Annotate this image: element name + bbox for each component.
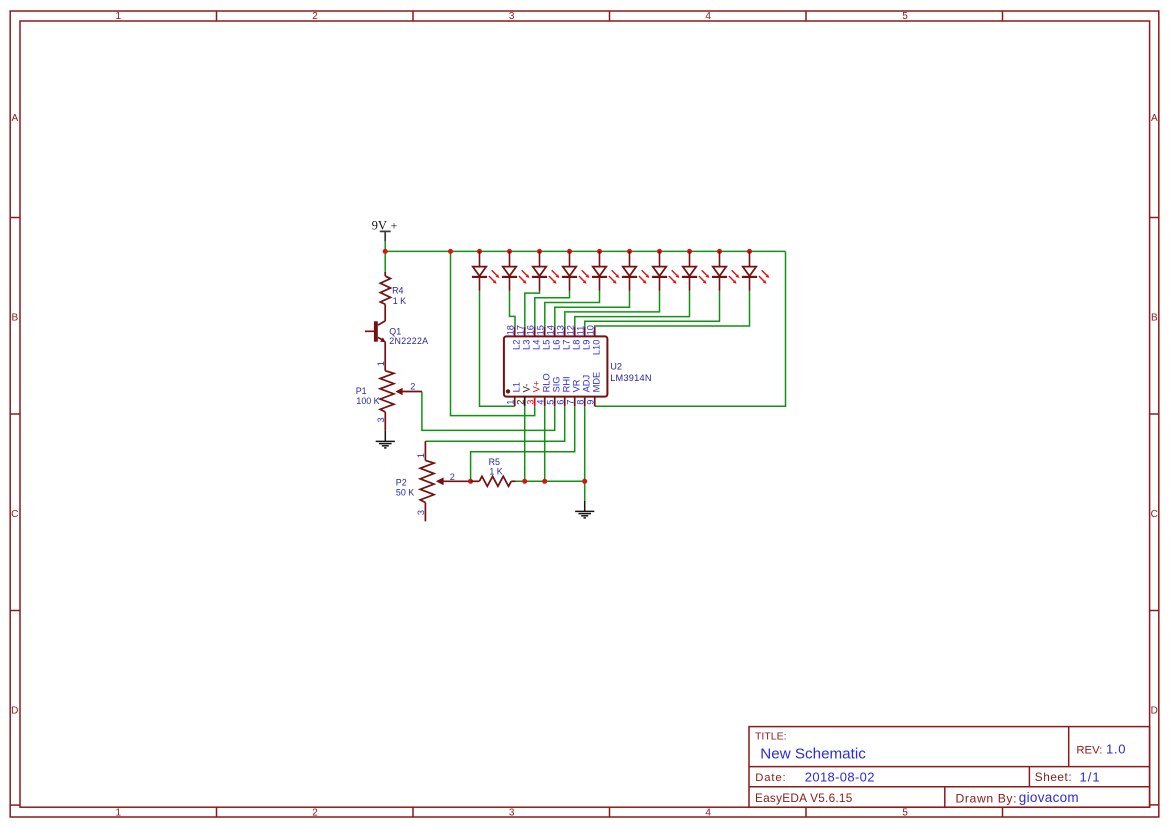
junction: 9V feed on 9V bus [383,249,388,254]
U2 pin 10 (L10) [585,325,601,355]
svg-text:A: A [1151,113,1158,124]
junction: LED8 anode on 9V bus [687,249,692,254]
U2 pin 13 (L7) [555,325,571,350]
svg-text:B: B [11,312,18,323]
wire: V+ rail drop to U2 pin 3 [451,251,535,415]
svg-text:L5: L5 [541,340,551,350]
svg-text:11: 11 [575,326,585,336]
svg-text:2018-08-02: 2018-08-02 [805,769,875,784]
svg-text:REV:: REV: [1076,744,1102,756]
svg-text:SIG: SIG [551,376,561,392]
wire: LED7 cathode to U2 pin 13 [565,291,660,328]
svg-text:MDE: MDE [591,372,601,393]
wire: LED1 cathode to U2 pin 1 [480,291,515,407]
svg-text:+: + [391,219,398,233]
svg-text:L8: L8 [571,340,581,350]
svg-text:4: 4 [705,11,711,22]
svg-text:V-: V- [521,384,531,393]
op-amp/IC U2 LM3914N body [504,336,652,396]
junction: LED7 anode on 9V bus [657,249,662,254]
svg-text:D: D [11,706,18,717]
svg-text:D: D [1151,706,1158,717]
svg-text:Q1: Q1 [389,326,401,336]
svg-text:3: 3 [525,400,535,405]
svg-text:6: 6 [555,400,565,405]
svg-text:4: 4 [535,400,545,405]
U2 pin 9 (MDE) [585,372,601,406]
svg-text:P2: P2 [396,477,407,487]
svg-text:14: 14 [545,325,555,335]
U2 pin 7 (VR) [565,379,581,406]
junction: LED9 anode on 9V bus [717,249,722,254]
U2 pin 18 (L2) [505,325,521,350]
U2 pin 12 (L8) [565,325,581,350]
LED 2 [502,251,530,290]
wire: U2 pin 9 MODE to V+ rail (right side loop) [595,251,786,406]
svg-text:Drawn By:: Drawn By: [956,791,1018,805]
junction: ADJ / ground node [582,479,587,484]
U2 pin 15 (L5) [535,325,551,350]
U2 pin 5 (SIG) [545,376,561,406]
ground under P1 [376,431,395,448]
LED 3 [532,251,560,290]
power flag 9V + [372,219,398,242]
svg-text:L10: L10 [591,340,601,356]
U2 pin 4 (RLO) [535,373,551,406]
LED 4 [562,251,590,290]
svg-text:1: 1 [505,400,515,405]
svg-text:12: 12 [565,325,575,335]
U2 pin 3 (V+) [525,381,541,406]
svg-text:8: 8 [575,400,585,405]
junction: LED1 anode on 9V bus [477,249,482,254]
wire: LED6 cathode to U2 pin 14 [555,291,630,328]
svg-text:L1: L1 [511,382,521,392]
svg-text:VR: VR [571,379,581,392]
svg-text:L7: L7 [561,340,571,350]
svg-text:1 K: 1 K [393,296,406,306]
svg-text:L6: L6 [551,340,561,350]
junction: V- on R5 output net [522,479,527,484]
U2 pin 14 (L6) [545,325,561,350]
svg-text:15: 15 [535,325,545,335]
wire: P2 wiper junction to R5 left lead [469,480,471,482]
potentiometer P2 (50 K) [396,441,469,521]
svg-text:3: 3 [509,11,515,22]
svg-text:C: C [1151,509,1158,520]
wire: P2 pin 1 to U2 pin 6 RHI [425,406,564,441]
U2 pin 17 (L3) [515,325,531,350]
svg-text:L4: L4 [531,340,541,350]
svg-text:A: A [11,113,18,124]
svg-text:3: 3 [509,807,515,818]
svg-text:13: 13 [555,325,565,335]
junction: LED3 anode on 9V bus [537,249,542,254]
wire: LED10 cathode to U2 pin 10 [595,291,750,328]
svg-text:50 K: 50 K [396,488,414,498]
U2 pin 2 (V-) [515,384,531,407]
svg-text:5: 5 [902,11,908,22]
junction: LED5 anode on 9V bus [597,249,602,254]
svg-text:L2: L2 [511,340,521,350]
wire: U2 pin 2 V- down to R5 output net [524,406,526,481]
svg-text:17: 17 [515,325,525,335]
svg-text:5: 5 [902,807,908,818]
svg-text:2: 2 [312,807,318,818]
svg-text:7: 7 [565,400,575,405]
svg-text:2N2222A: 2N2222A [389,336,428,346]
svg-text:U2: U2 [610,361,622,371]
wire: LED9 cathode to U2 pin 11 [585,291,720,328]
svg-text:2: 2 [450,472,455,482]
svg-text:ADJ: ADJ [581,375,591,393]
wire: P2 wiper node to U2 pin 7 VR [471,406,575,481]
wire: LED8 cathode to U2 pin 12 [575,291,690,328]
svg-text:Sheet:: Sheet: [1035,770,1072,784]
svg-text:R4: R4 [392,286,403,296]
svg-text:TITLE:: TITLE: [755,730,787,742]
LED 6 [622,251,650,290]
wire: R5 right lead to ADJ/ground node [515,480,584,482]
wire: U2 pin 8 ADJ down to ground [584,406,586,501]
svg-text:4: 4 [705,807,711,818]
svg-text:2: 2 [312,11,318,22]
junction: LED10 anode on 9V bus [747,249,752,254]
svg-text:EasyEDA V5.6.15: EasyEDA V5.6.15 [755,791,853,805]
wire: 9V positive bus (top rail) [385,241,785,272]
wire: U2 pin 4 RLO down to R5 output net [544,406,546,481]
LED 8 [682,251,710,290]
svg-text:1.0: 1.0 [1106,742,1126,757]
junction: P2 wiper / R5 / VR node [468,479,473,484]
svg-text:P1: P1 [356,386,367,396]
wire: LED2 cathode to U2 pin 18 [510,291,516,328]
potentiometer P1 (100 K) [356,361,422,431]
junction: LED6 anode on 9V bus [627,249,632,254]
U2 pin 8 (ADJ) [575,375,591,406]
svg-text:1/1: 1/1 [1080,769,1101,784]
svg-text:New Schematic: New Schematic [760,746,866,763]
svg-text:1: 1 [376,361,386,366]
svg-text:1: 1 [116,807,122,818]
svg-text:2: 2 [410,382,415,392]
title block [749,727,1150,808]
svg-text:18: 18 [505,325,515,335]
svg-text:Date:: Date: [755,772,786,784]
wire: LED5 cathode to U2 pin 15 [545,291,600,328]
junction: V+ tap on 9V bus [448,249,453,254]
svg-text:R5: R5 [489,457,500,467]
svg-text:RLO: RLO [541,373,551,392]
LED 9 [712,251,740,290]
svg-text:LM3914N: LM3914N [610,373,652,383]
junction: LED4 anode on 9V bus [567,249,572,254]
svg-text:5: 5 [545,400,555,405]
svg-text:1: 1 [416,453,426,458]
transistor Q1 (2N2222A, NPN) [365,321,429,371]
svg-text:3: 3 [376,417,386,422]
ground at ADJ / R5 output net [575,501,594,518]
U2 pin 1 (L1) [505,382,521,406]
svg-text:V+: V+ [531,381,541,393]
LED 1 [472,251,500,290]
svg-text:B: B [1151,312,1158,323]
junction: LED2 anode on 9V bus [507,249,512,254]
svg-text:3: 3 [416,510,426,515]
svg-text:giovacom: giovacom [1019,790,1079,805]
svg-text:C: C [11,509,18,520]
U2 pin 11 (L9) [575,326,591,350]
junction: RLO on R5 output net [542,479,547,484]
resistor R4 (1 K) [380,272,406,321]
svg-text:L9: L9 [581,340,591,350]
resistor R5 (1 K) [471,457,516,486]
svg-text:2: 2 [515,400,525,405]
svg-text:9: 9 [585,400,595,405]
svg-text:1 K: 1 K [489,467,502,477]
svg-text:RHI: RHI [561,376,571,392]
U2 pin 6 (RHI) [555,376,571,406]
LED 5 [592,251,620,290]
wire: LED4 cathode to U2 pin 16 [535,291,570,328]
wire: P1 wiper to U2 pin 5 SIG [422,392,555,431]
U2 pin 16 (L4) [525,325,541,350]
svg-text:1: 1 [116,11,122,22]
wire: LED3 cathode to U2 pin 17 [525,291,540,328]
svg-text:100 K: 100 K [356,396,379,406]
LED 7 [652,251,680,290]
svg-text:16: 16 [525,325,535,335]
svg-text:L3: L3 [521,340,531,350]
LED 10 [742,251,770,290]
svg-text:10: 10 [585,325,595,335]
